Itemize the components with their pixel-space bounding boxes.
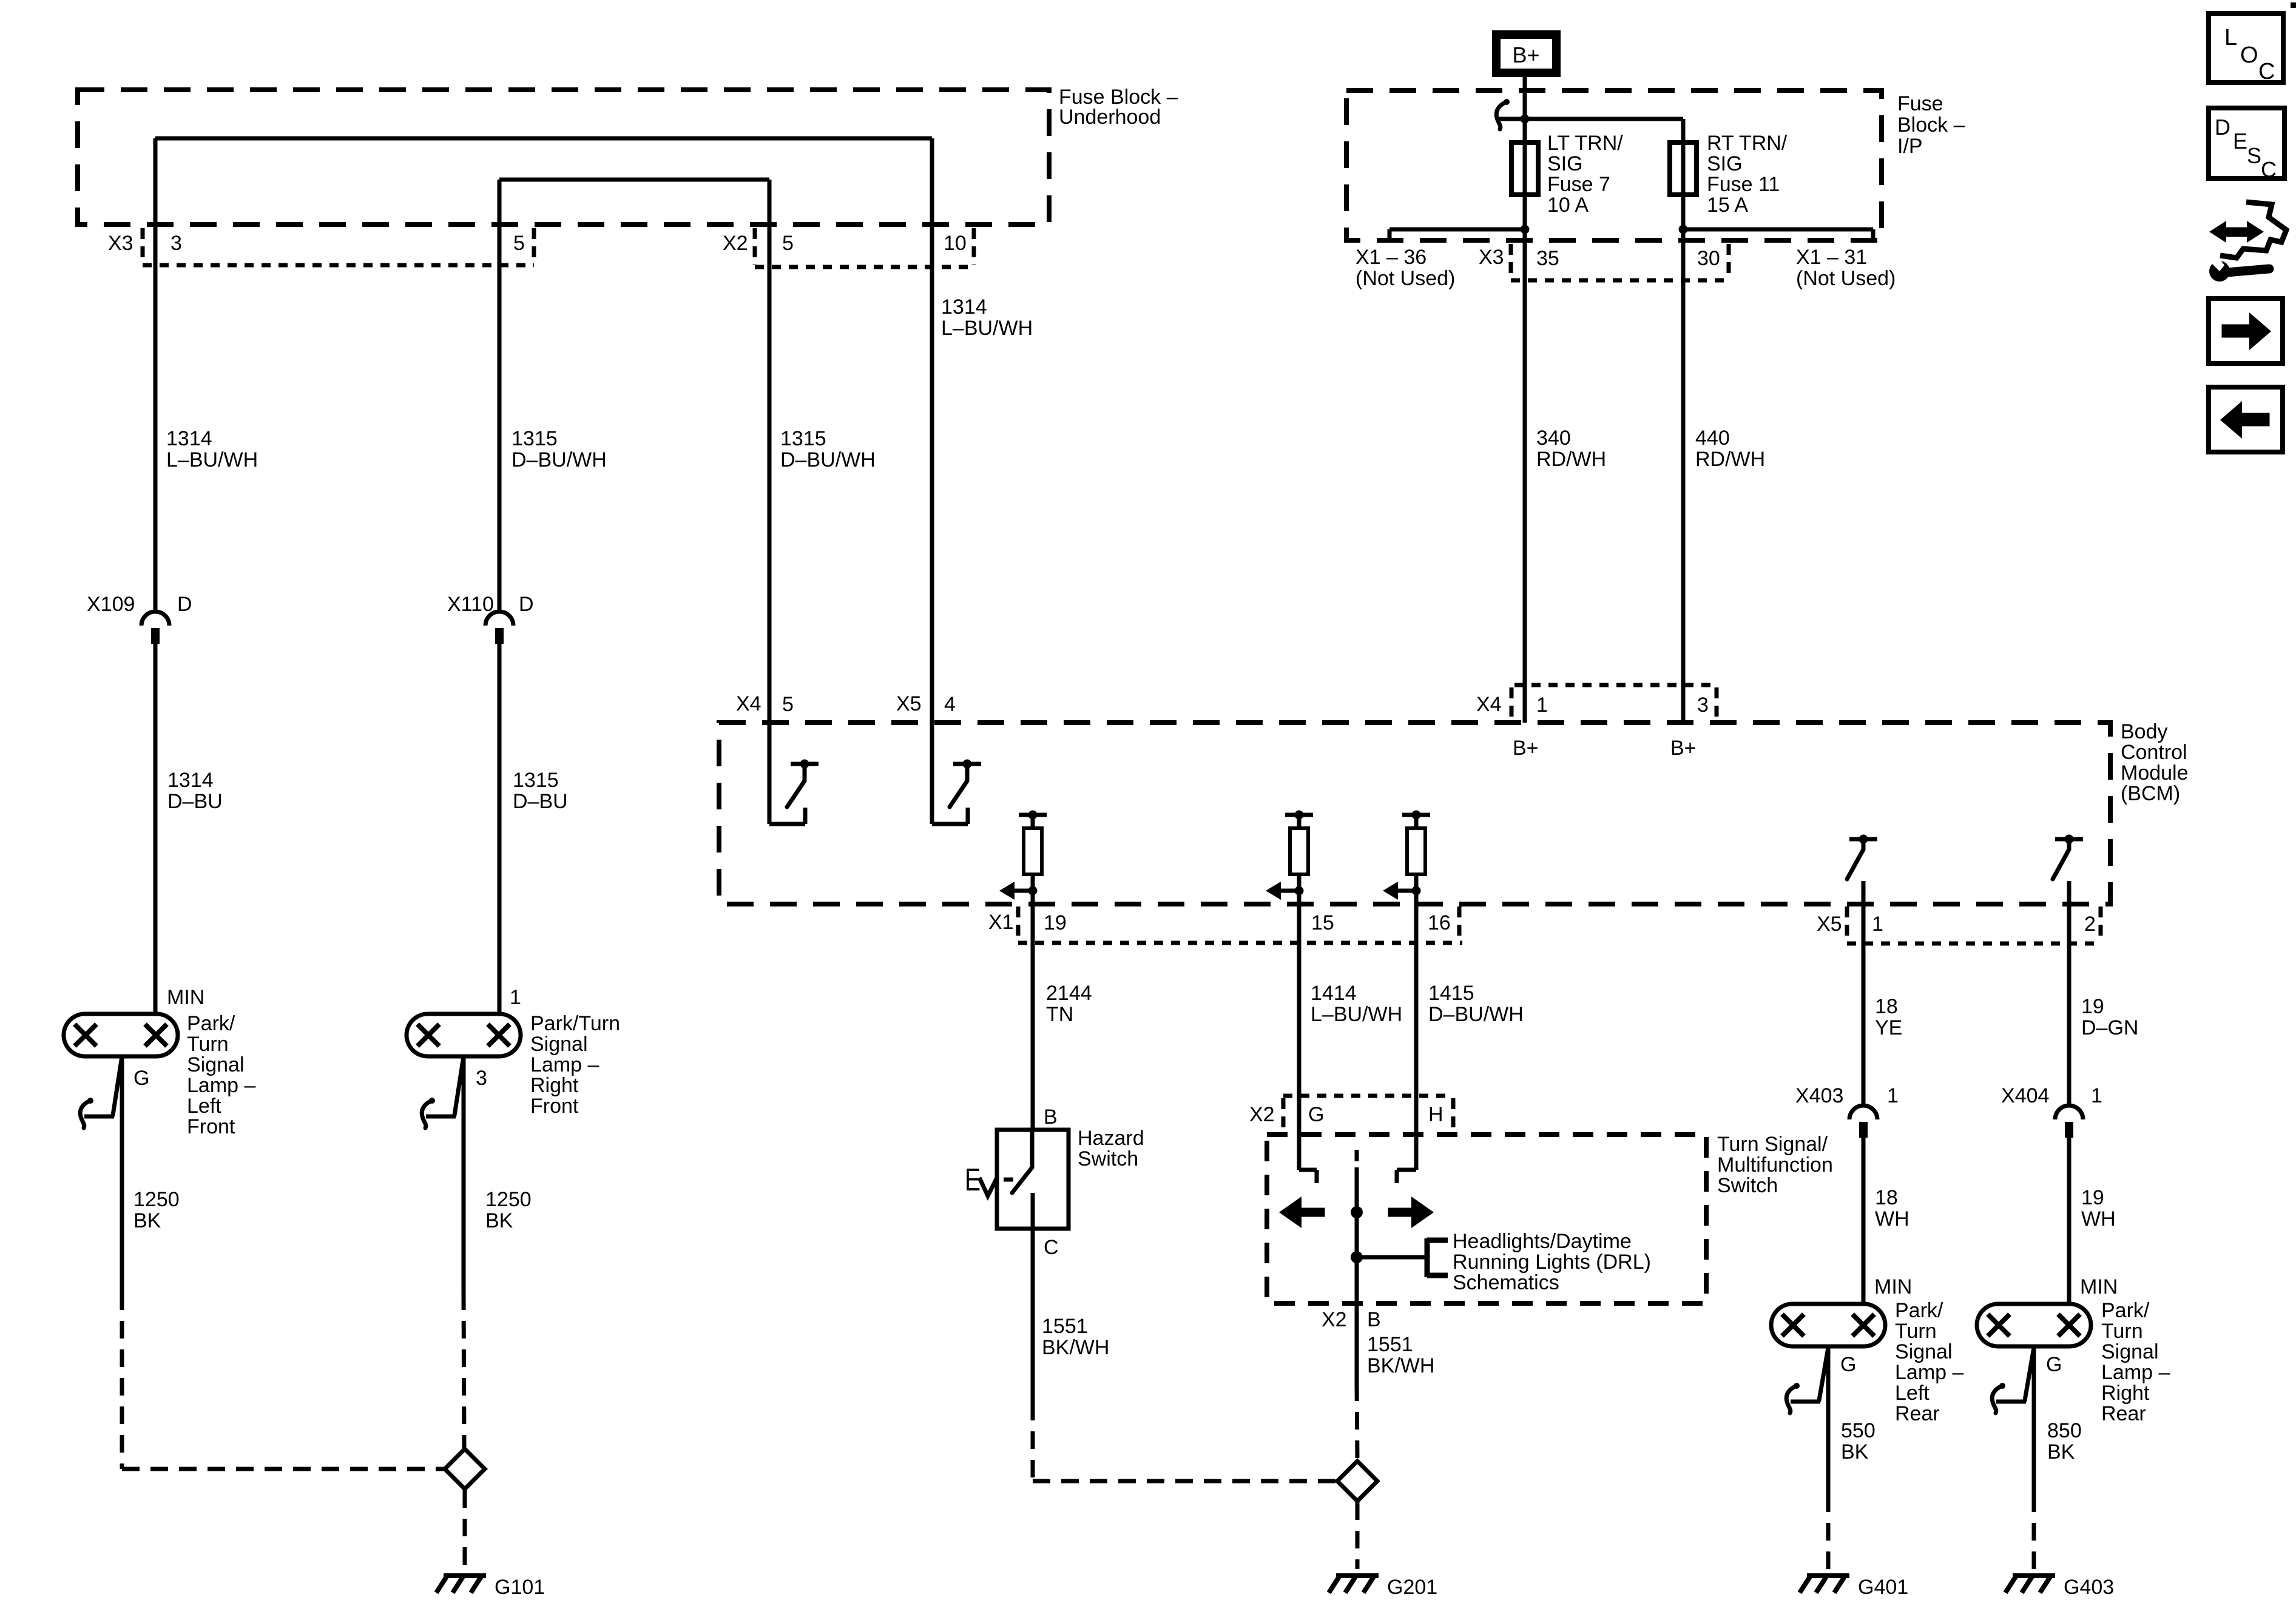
- wire 1551 BK/WH switch: [1355, 1303, 1359, 1383]
- svg-text:Park/: Park/: [2101, 1299, 2150, 1322]
- svg-text:15: 15: [1311, 911, 1334, 934]
- fuse 11 RT TRN/SIG: [1681, 143, 1686, 195]
- svg-text:(BCM): (BCM): [2121, 782, 2180, 805]
- wire 1314 L-BU/WH drop to BCM: [930, 138, 934, 824]
- svg-text:Lamp –: Lamp –: [530, 1053, 599, 1076]
- wire 1414 L-BU/WH: [1297, 891, 1302, 1170]
- wire 1250 BK left: [120, 1056, 124, 1292]
- svg-text:1551: 1551: [1042, 1315, 1088, 1338]
- icon DESC box: [2209, 108, 2284, 178]
- svg-text:1: 1: [2091, 1084, 2102, 1107]
- svg-text:D–BU/WH: D–BU/WH: [512, 448, 607, 471]
- wire 550 BK: [1826, 1347, 1831, 1494]
- ground G401: [1807, 1573, 1849, 1578]
- switch throw G: [1299, 1168, 1317, 1172]
- resistor BCM output 16 with arrow: [1412, 811, 1421, 820]
- svg-text:X2: X2: [723, 232, 748, 255]
- fuse block underhood dashed box: [78, 90, 1049, 224]
- svg-text:1: 1: [1887, 1084, 1899, 1107]
- svg-text:X2: X2: [1249, 1103, 1275, 1126]
- svg-text:X1: X1: [988, 911, 1014, 934]
- fuse block I/P dashed box: [1346, 90, 1882, 240]
- wire 19 WH: [2067, 1137, 2071, 1304]
- svg-text:Module: Module: [2121, 761, 2189, 785]
- svg-text:3: 3: [1697, 694, 1709, 717]
- svg-text:MIN: MIN: [1874, 1275, 1912, 1298]
- svg-text:D–BU: D–BU: [513, 790, 568, 813]
- svg-text:Fuse 11: Fuse 11: [1707, 173, 1780, 196]
- svg-text:5: 5: [513, 232, 525, 255]
- svg-text:Lamp –: Lamp –: [1895, 1361, 1963, 1384]
- svg-text:Block –: Block –: [1897, 113, 1965, 137]
- svg-text:5: 5: [782, 693, 794, 716]
- ground G201: [1336, 1573, 1379, 1578]
- svg-text:Front: Front: [530, 1095, 579, 1118]
- svg-text:X3: X3: [108, 232, 133, 255]
- hazard switch blade: [1030, 1130, 1035, 1167]
- svg-text:L: L: [2224, 25, 2237, 50]
- svg-text:D–BU/WH: D–BU/WH: [1428, 1003, 1524, 1026]
- svg-text:Turn: Turn: [187, 1033, 229, 1056]
- icon wrench/double-arrow: [2209, 221, 2226, 243]
- svg-text:BK: BK: [1841, 1440, 1869, 1463]
- svg-text:1250: 1250: [485, 1188, 532, 1211]
- svg-text:340: 340: [1536, 427, 1571, 450]
- connector X1 bracket at BCM bottom: [1016, 906, 1021, 939]
- ground G101: [444, 1573, 486, 1578]
- svg-text:18: 18: [1875, 1186, 1898, 1209]
- svg-text:D–BU: D–BU: [167, 790, 223, 813]
- svg-text:Front: Front: [187, 1115, 235, 1138]
- svg-text:Lamp –: Lamp –: [187, 1074, 255, 1097]
- svg-text:BK/WH: BK/WH: [1042, 1336, 1109, 1359]
- hazard switch box: [997, 1130, 1069, 1229]
- svg-text:35: 35: [1536, 247, 1559, 270]
- stub X1-31 not used: [1683, 228, 1873, 232]
- svg-text:Headlights/Daytime: Headlights/Daytime: [1453, 1230, 1632, 1253]
- svg-text:TN: TN: [1046, 1003, 1073, 1026]
- wire bus B (fuse 5 to pin 5): [499, 178, 769, 182]
- svg-text:X3: X3: [1479, 246, 1504, 269]
- svg-text:G101: G101: [495, 1576, 545, 1599]
- connector X2 bracket: [753, 228, 757, 265]
- svg-text:10: 10: [944, 232, 967, 255]
- svg-text:C: C: [2261, 157, 2277, 182]
- svg-text:1: 1: [1872, 913, 1883, 936]
- svg-text:Right: Right: [530, 1074, 579, 1097]
- lamp park/turn signal left front: [64, 1014, 178, 1056]
- svg-text:1314: 1314: [941, 295, 987, 319]
- svg-text:S: S: [2247, 143, 2261, 168]
- svg-text:X4: X4: [736, 692, 761, 715]
- dashed run to splice: [122, 1467, 444, 1471]
- svg-text:Signal: Signal: [1895, 1340, 1953, 1363]
- svg-text:BK: BK: [2047, 1440, 2075, 1463]
- ground G403: [2013, 1573, 2055, 1578]
- svg-text:X5: X5: [1817, 913, 1842, 936]
- svg-text:Fuse 7: Fuse 7: [1547, 173, 1610, 196]
- svg-text:Hazard: Hazard: [1078, 1127, 1144, 1150]
- svg-text:18: 18: [1875, 995, 1898, 1018]
- svg-text:H: H: [1428, 1103, 1443, 1126]
- splice diamond S-G101: [445, 1449, 485, 1489]
- svg-text:SIG: SIG: [1707, 152, 1743, 175]
- lamp park/turn signal left rear: [1771, 1304, 1885, 1346]
- svg-text:Lamp –: Lamp –: [2101, 1361, 2170, 1384]
- svg-text:Park/: Park/: [187, 1012, 235, 1035]
- wire 18 WH: [1862, 1137, 1866, 1304]
- svg-text:(Not Used): (Not Used): [1356, 267, 1455, 290]
- svg-text:Underhood: Underhood: [1059, 106, 1161, 129]
- svg-text:X403: X403: [1795, 1084, 1843, 1107]
- svg-text:Multifunction: Multifunction: [1717, 1153, 1833, 1176]
- switch throw H: [1397, 1168, 1416, 1172]
- svg-text:Fuse: Fuse: [1897, 92, 1943, 115]
- right turn arrow: [1411, 1197, 1434, 1228]
- fuse 7 output node: [1523, 195, 1527, 723]
- svg-text:1315: 1315: [512, 427, 558, 450]
- page artifact mark: [2291, 2, 2296, 8]
- stub X1-36 not used: [1389, 228, 1525, 232]
- svg-text:1250: 1250: [133, 1188, 180, 1211]
- svg-text:X110: X110: [447, 593, 494, 616]
- svg-text:B+: B+: [1670, 737, 1697, 760]
- svg-text:X1 – 36: X1 – 36: [1356, 246, 1427, 269]
- svg-text:D: D: [519, 593, 534, 616]
- connector X3 I/P bracket: [1509, 244, 1513, 277]
- icon LOC box: [2209, 13, 2283, 83]
- svg-text:30: 30: [1697, 247, 1720, 270]
- switch BCM input right turn: [932, 822, 968, 826]
- svg-text:Signal: Signal: [187, 1053, 245, 1076]
- svg-text:Switch: Switch: [1078, 1147, 1138, 1170]
- wire 1314 D-BU: [154, 643, 158, 1014]
- svg-text:G: G: [1840, 1353, 1856, 1376]
- svg-text:G201: G201: [1387, 1576, 1437, 1599]
- svg-text:440: 440: [1695, 427, 1730, 450]
- svg-text:4: 4: [944, 693, 956, 716]
- DRL reference stub: [1357, 1255, 1427, 1260]
- wire 19 D-GN: [2067, 881, 2071, 1106]
- svg-text:1: 1: [1536, 694, 1548, 717]
- svg-text:2144: 2144: [1046, 982, 1092, 1005]
- in-line connector X403: [1849, 1106, 1877, 1119]
- switch BCM output X5-2: [2065, 835, 2074, 844]
- svg-text:G: G: [1308, 1103, 1324, 1126]
- ground lead hook right front lamp: [454, 1056, 464, 1115]
- svg-text:1414: 1414: [1311, 982, 1357, 1005]
- svg-text:Left: Left: [1895, 1382, 1930, 1405]
- svg-text:B: B: [1367, 1308, 1381, 1331]
- svg-text:D: D: [177, 593, 192, 616]
- svg-text:RT TRN/: RT TRN/: [1707, 132, 1788, 155]
- connector X3 bracket: [141, 228, 145, 263]
- dashed wire to G201: [1356, 1502, 1360, 1569]
- svg-text:L–BU/WH: L–BU/WH: [941, 317, 1033, 340]
- svg-text:1315: 1315: [780, 427, 826, 450]
- connector X5 bracket at BCM bottom right: [1845, 906, 1849, 940]
- svg-text:RD/WH: RD/WH: [1695, 448, 1765, 471]
- B+ power box: [1496, 35, 1556, 73]
- svg-text:1314: 1314: [167, 769, 214, 792]
- svg-text:L–BU/WH: L–BU/WH: [166, 448, 258, 471]
- svg-text:Turn: Turn: [2101, 1320, 2143, 1343]
- in-line connector X109: [141, 612, 169, 626]
- switch BCM input left turn: [769, 822, 805, 826]
- svg-text:X1 – 31: X1 – 31: [1796, 246, 1867, 269]
- svg-text:Control: Control: [2121, 741, 2187, 764]
- svg-text:Schematics: Schematics: [1453, 1271, 1559, 1294]
- svg-text:B+: B+: [1512, 42, 1539, 67]
- dashed wire to G101: [463, 1490, 467, 1569]
- svg-text:YE: YE: [1875, 1016, 1902, 1039]
- svg-text:X2: X2: [1322, 1308, 1347, 1331]
- svg-text:1: 1: [510, 986, 521, 1009]
- svg-text:Right: Right: [2101, 1382, 2150, 1405]
- svg-text:D–GN: D–GN: [2081, 1016, 2138, 1039]
- svg-text:1314: 1314: [166, 427, 212, 450]
- svg-text:X109: X109: [87, 593, 135, 616]
- svg-text:BK/WH: BK/WH: [1367, 1354, 1434, 1377]
- svg-text:I/P: I/P: [1897, 135, 1923, 158]
- svg-text:550: 550: [1841, 1419, 1876, 1442]
- svg-text:19: 19: [1044, 911, 1067, 934]
- wire bus A (fuse 3 to pin 10): [155, 137, 932, 141]
- svg-text:LT TRN/: LT TRN/: [1547, 132, 1623, 155]
- feed continues hook: [1499, 117, 1525, 121]
- wire 1314 L-BU/WH left drop: [154, 138, 158, 613]
- splice diamond S-G201: [1337, 1461, 1377, 1501]
- svg-text:WH: WH: [1875, 1207, 1909, 1230]
- body control module dashed box: [719, 723, 2110, 904]
- svg-text:1315: 1315: [513, 769, 559, 792]
- svg-text:1551: 1551: [1367, 1333, 1413, 1356]
- svg-text:C: C: [2258, 59, 2275, 84]
- svg-text:Turn: Turn: [1895, 1320, 1937, 1343]
- wire 1315 D-BU/WH drop: [498, 180, 502, 613]
- svg-text:SIG: SIG: [1547, 152, 1583, 175]
- svg-text:Signal: Signal: [530, 1033, 588, 1056]
- svg-text:X5: X5: [896, 692, 922, 715]
- svg-text:Turn Signal/: Turn Signal/: [1717, 1133, 1828, 1156]
- icon prev-page arrow: [2209, 387, 2283, 452]
- svg-text:G: G: [133, 1067, 149, 1090]
- wire 850 BK: [2032, 1347, 2036, 1494]
- svg-text:B+: B+: [1513, 737, 1539, 760]
- svg-text:Running Lights (DRL): Running Lights (DRL): [1453, 1251, 1651, 1274]
- svg-text:O: O: [2240, 42, 2258, 68]
- fuse 7 LT TRN/SIG: [1523, 143, 1527, 195]
- svg-text:BK: BK: [485, 1209, 513, 1232]
- wire 1315 D-BU: [498, 643, 502, 1014]
- svg-text:RD/WH: RD/WH: [1536, 448, 1606, 471]
- svg-text:15 A: 15 A: [1707, 194, 1748, 217]
- connector X4 bracket at BCM top right: [1514, 683, 1714, 687]
- svg-text:L–BU/WH: L–BU/WH: [1311, 1003, 1402, 1026]
- lamp park/turn signal right rear: [1977, 1304, 2091, 1346]
- svg-text:Park/Turn: Park/Turn: [530, 1012, 620, 1035]
- svg-text:Rear: Rear: [2101, 1402, 2146, 1425]
- wire 18 YE: [1862, 881, 1866, 1106]
- svg-text:B: B: [1044, 1106, 1058, 1129]
- in-line connector X404: [2055, 1106, 2083, 1119]
- fuse 11 output node: [1681, 195, 1686, 723]
- svg-text:3: 3: [476, 1067, 487, 1090]
- svg-text:16: 16: [1428, 911, 1451, 934]
- left turn arrow: [1279, 1197, 1302, 1228]
- svg-text:Signal: Signal: [2101, 1340, 2159, 1363]
- svg-text:G: G: [2046, 1353, 2062, 1376]
- svg-text:5: 5: [782, 232, 794, 255]
- svg-text:19: 19: [2081, 1186, 2104, 1209]
- svg-text:MIN: MIN: [167, 986, 204, 1009]
- svg-text:G403: G403: [2064, 1576, 2114, 1599]
- switch BCM output X5-1: [1859, 835, 1868, 844]
- svg-text:E: E: [2233, 129, 2247, 154]
- svg-text:BK: BK: [133, 1209, 161, 1232]
- in-line connector X110: [485, 612, 513, 626]
- ground lead hook left rear lamp: [1819, 1348, 1828, 1400]
- svg-text:19: 19: [2081, 995, 2104, 1018]
- svg-text:X4: X4: [1476, 693, 1502, 716]
- svg-text:C: C: [1044, 1236, 1059, 1259]
- wire 1551 BK/WH hazard: [1031, 1229, 1035, 1403]
- svg-text:1415: 1415: [1428, 982, 1474, 1005]
- svg-text:X404: X404: [2001, 1084, 2049, 1107]
- ground lead hook right rear lamp: [2025, 1348, 2034, 1400]
- switch common wiper line: [1355, 1150, 1359, 1161]
- svg-text:D: D: [2215, 115, 2230, 140]
- wire to fuse 11: [1525, 117, 1683, 121]
- ground lead hook left front lamp: [113, 1056, 122, 1115]
- svg-text:D–BU/WH: D–BU/WH: [780, 448, 876, 471]
- icon next-page arrow: [2209, 299, 2283, 363]
- svg-text:3: 3: [171, 232, 182, 255]
- wire 2144 TN: [1031, 891, 1035, 1130]
- lamp park/turn signal right front: [407, 1014, 521, 1056]
- connector X2 bracket above switch: [1283, 1094, 1453, 1098]
- wire 1415 D-BU/WH: [1414, 891, 1419, 1170]
- wire B+ feed: [1523, 73, 1527, 143]
- svg-text:Switch: Switch: [1717, 1174, 1778, 1197]
- svg-text:Park/: Park/: [1895, 1299, 1943, 1322]
- svg-text:WH: WH: [2081, 1207, 2116, 1230]
- svg-text:10 A: 10 A: [1547, 194, 1589, 217]
- svg-text:850: 850: [2047, 1419, 2082, 1442]
- svg-text:2: 2: [2084, 913, 2096, 936]
- svg-text:Body: Body: [2121, 720, 2168, 743]
- wire 1315 D-BU/WH drop to BCM: [768, 180, 772, 824]
- wire 1250 BK right: [462, 1056, 466, 1292]
- turn signal/multifunction switch dashed box: [1267, 1135, 1706, 1303]
- svg-text:Left: Left: [187, 1095, 221, 1118]
- svg-text:MIN: MIN: [2080, 1275, 2118, 1298]
- resistor BCM output 15 with arrow: [1295, 811, 1304, 820]
- svg-text:G401: G401: [1858, 1576, 1908, 1599]
- resistor BCM output 19 with arrow: [1028, 811, 1038, 820]
- svg-text:(Not Used): (Not Used): [1796, 267, 1896, 290]
- svg-text:Rear: Rear: [1895, 1402, 1940, 1425]
